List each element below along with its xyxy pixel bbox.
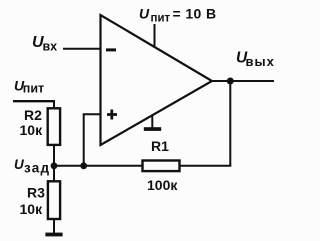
ground — [45, 233, 62, 237]
wire feedback vertical — [229, 81, 231, 166]
node junction R2 R3 — [51, 162, 58, 169]
ground (op-amp negative supply) — [144, 127, 161, 131]
svg-text:R2: R2 — [24, 107, 42, 123]
svg-text:пит: пит — [23, 82, 44, 96]
wire plus input horizontal — [83, 113, 100, 115]
op-amp U1 — [101, 15, 213, 145]
wire supply stub to op-amp top — [154, 24, 156, 48]
wire output — [212, 80, 274, 82]
wire node to R3 — [53, 166, 55, 182]
wire R2 to node — [53, 145, 55, 166]
wire supply terminal bar — [13, 100, 55, 102]
svg-text:10к: 10к — [20, 122, 44, 138]
svg-text:100к: 100к — [147, 177, 178, 193]
wire ground stub under op-amp — [151, 115, 153, 129]
wire node rail Uzad — [54, 165, 143, 167]
svg-text:= 10 В: = 10 В — [173, 6, 217, 22]
svg-text:U: U — [139, 6, 150, 22]
wire plus input vertical — [83, 114, 85, 166]
wire supply to R2 — [53, 101, 55, 109]
svg-text:R3: R3 — [27, 185, 45, 201]
wire R3 to ground — [53, 219, 55, 233]
node output junction — [227, 78, 234, 85]
svg-text:вх: вх — [43, 40, 58, 54]
node junction to plus input — [80, 162, 87, 169]
resistor R2 — [48, 108, 60, 145]
svg-text:10к: 10к — [20, 201, 44, 217]
op-amp non-inverting input plus sign — [107, 110, 117, 120]
wire feedback horizontal to R1 — [180, 165, 231, 167]
svg-text:пит: пит — [151, 13, 171, 25]
op-amp inverting input minus sign — [106, 48, 116, 51]
resistor R1 — [143, 161, 180, 172]
svg-text:R1: R1 — [151, 138, 169, 154]
resistor R3 — [48, 181, 60, 219]
wire input Uvx to inverting input — [63, 48, 100, 50]
svg-text:зад: зад — [24, 161, 50, 176]
svg-text:вых: вых — [246, 54, 275, 69]
